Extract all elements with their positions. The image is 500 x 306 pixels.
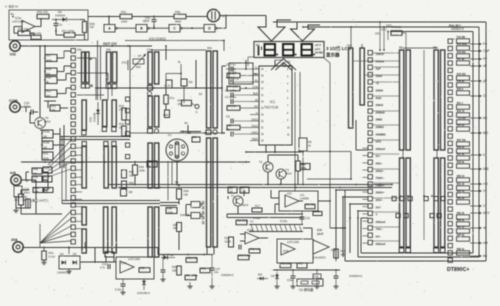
svg-text:10k: 10k xyxy=(34,190,39,194)
contact column x126 xyxy=(126,97,130,101)
svg-text:200mA: 200mA xyxy=(376,220,387,224)
wafer bar 30a-3 xyxy=(148,207,152,257)
IC5 box xyxy=(279,191,318,211)
capacitor C14 xyxy=(55,20,57,24)
wire loop conn2 xyxy=(343,196,368,198)
diode D6m xyxy=(163,255,167,259)
wire IC5 leads xyxy=(271,197,279,199)
svg-text:K1: K1 xyxy=(168,133,172,137)
ground g2 xyxy=(292,284,294,286)
ground g8 xyxy=(211,284,213,286)
resistor R17 xyxy=(45,55,57,62)
svg-text:V·: V· xyxy=(178,60,181,64)
ground g4 xyxy=(335,284,337,286)
wire gate C-D xyxy=(181,27,204,29)
svg-text:G: G xyxy=(196,110,198,114)
diode D11 xyxy=(313,274,321,279)
resistor R5a xyxy=(166,80,172,88)
svg-text:200V=: 200V= xyxy=(376,191,385,195)
contact squares right-mid xyxy=(392,197,396,201)
svg-text:20A: 20A xyxy=(11,238,18,242)
resistor R11 xyxy=(50,105,60,111)
svg-text:T1: T1 xyxy=(250,220,254,224)
contact 30a low xyxy=(148,129,153,134)
svg-text:LM358: LM358 xyxy=(300,196,309,200)
wire x130 drop xyxy=(129,46,131,137)
svg-text:R24: R24 xyxy=(44,166,49,170)
svg-text:20nF: 20nF xyxy=(376,74,383,78)
svg-text:1N4004: 1N4004 xyxy=(55,13,65,17)
wire 20A rail xyxy=(22,247,116,249)
svg-text:1N4004×2: 1N4004×2 xyxy=(221,273,234,277)
wire fan diag5 xyxy=(48,169,71,177)
capacitor C13 xyxy=(238,245,240,250)
wire R20 out xyxy=(57,93,66,95)
svg-text:R6: R6 xyxy=(229,186,233,190)
wafer bar 2f xyxy=(112,207,116,253)
svg-text:C10a: C10a xyxy=(287,278,294,282)
svg-text:R30: R30 xyxy=(175,10,181,14)
op-amp IC3a xyxy=(245,232,259,244)
svg-text:20kΩ: 20kΩ xyxy=(376,103,384,107)
svg-text:200mA: 200mA xyxy=(376,242,387,246)
box K cluster xyxy=(229,63,253,84)
svg-text:mA: mA xyxy=(10,171,16,175)
resistor R20 xyxy=(45,90,57,97)
wafer bar 30b-2 xyxy=(207,138,211,247)
gate IC6A xyxy=(104,25,115,33)
arrow LCD feed 2 xyxy=(291,22,321,41)
resistor R8 xyxy=(305,204,315,209)
resistor R52m xyxy=(122,181,127,188)
svg-text:250V: 250V xyxy=(24,190,31,194)
wire loop3 xyxy=(390,31,473,33)
fuse BX xyxy=(14,186,22,197)
resistor R1 xyxy=(227,73,240,78)
svg-text:R11 4.1k: R11 4.1k xyxy=(250,247,261,251)
resistor R14b xyxy=(238,255,249,260)
svg-text:R19: R19 xyxy=(46,76,52,80)
LCD display xyxy=(254,42,324,58)
wire LCD drop a xyxy=(294,72,296,191)
resistor R51m xyxy=(122,170,127,178)
resistor R26 xyxy=(122,126,127,136)
svg-text:53b: 53b xyxy=(347,44,352,48)
wire left join xyxy=(157,250,159,255)
svg-text:R36 100k: R36 100k xyxy=(62,29,75,33)
svg-text:μF: μF xyxy=(483,79,487,83)
wire R18 out xyxy=(57,71,64,73)
wire loop2 xyxy=(303,26,479,28)
wire range to wafer xyxy=(373,52,400,54)
svg-text:F: F xyxy=(483,42,485,46)
wire VΩ drop xyxy=(39,46,41,117)
svg-text:R1 1k: R1 1k xyxy=(228,72,236,76)
wire fan diag2 xyxy=(48,147,71,168)
svg-text:2W: 2W xyxy=(90,25,95,29)
wire mid rail y162 xyxy=(21,161,250,163)
svg-text:C1 0.22u: C1 0.22u xyxy=(225,95,237,99)
svg-text:750V=: 750V= xyxy=(376,183,385,187)
svg-text:OUT: OUT xyxy=(317,232,324,236)
resistor R11c xyxy=(236,220,247,225)
svg-text:IN+: IN+ xyxy=(254,73,258,76)
svg-text:PR2: PR2 xyxy=(298,262,303,265)
resistor R2 xyxy=(227,125,240,130)
right arrows xyxy=(470,43,480,45)
svg-text:1N4148×2: 1N4148×2 xyxy=(137,291,150,295)
op-amp IC3b xyxy=(313,240,329,254)
wafer bar 5B-2a xyxy=(400,158,404,247)
wire fan 1 xyxy=(53,133,60,135)
ground g9 xyxy=(189,284,191,286)
svg-text:V+: V+ xyxy=(11,12,15,16)
resistor R32 xyxy=(18,31,30,36)
wafer bar 2a xyxy=(103,100,107,127)
wire loop1 xyxy=(273,21,486,23)
wire mid verticals xyxy=(176,161,178,185)
svg-text:R17: R17 xyxy=(255,204,261,208)
switch contact column mid xyxy=(368,51,372,55)
wafer bar 2c xyxy=(104,142,108,146)
resistor R3 xyxy=(227,106,240,111)
wire rotary down xyxy=(167,161,169,201)
svg-text:R65 2k: R65 2k xyxy=(457,213,465,215)
capacitor C1 xyxy=(230,99,232,104)
svg-text:R48: R48 xyxy=(167,207,172,211)
op-amp IC4a xyxy=(120,261,134,273)
svg-text:R43: R43 xyxy=(34,186,39,190)
resistor R4c xyxy=(192,137,200,142)
svg-text:T: T xyxy=(376,213,378,217)
svg-text:R9 1k: R9 1k xyxy=(313,209,321,213)
resistor R5a xyxy=(200,268,210,273)
svg-text:13k: 13k xyxy=(184,192,189,196)
resistor R33 xyxy=(37,14,49,19)
wire T4 base xyxy=(30,122,35,124)
svg-text:R11: R11 xyxy=(51,104,56,108)
svg-text:R58: R58 xyxy=(140,266,145,270)
resistor R7b xyxy=(240,187,249,193)
wire feedback xyxy=(14,26,22,28)
svg-text:9014: 9014 xyxy=(242,203,249,207)
resistor R14 xyxy=(33,188,43,193)
svg-text:R11 16.2k: R11 16.2k xyxy=(237,220,249,223)
wafer bar 2e xyxy=(104,207,108,253)
svg-text:R67 10: R67 10 xyxy=(457,227,465,229)
svg-text:R14 1.10k: R14 1.10k xyxy=(239,254,251,258)
svg-text:OSC3: OSC3 xyxy=(251,118,258,121)
wire col2 left stubs xyxy=(363,147,369,149)
svg-text:R46: R46 xyxy=(184,189,190,193)
svg-text:9014: 9014 xyxy=(286,171,293,175)
wire bars to rail xyxy=(206,247,208,255)
svg-text:Ce 蜂鸣器: Ce 蜂鸣器 xyxy=(299,287,314,292)
capacitor C5 xyxy=(230,119,232,124)
wire OF drops xyxy=(379,22,381,50)
wire R10 bus xyxy=(41,130,43,156)
wire y46 mid xyxy=(71,45,152,47)
svg-text:20V=: 20V= xyxy=(376,198,383,202)
wire y40 link xyxy=(125,40,224,42)
wafer bar 5B-1b xyxy=(406,50,410,150)
resistor R26b xyxy=(43,176,52,182)
svg-text:V-: V- xyxy=(256,112,258,115)
svg-text:R33 470: R33 470 xyxy=(37,10,48,14)
resistor R103k xyxy=(300,164,310,170)
svg-text:IC1: IC1 xyxy=(270,100,275,104)
buzzer Ce xyxy=(297,279,323,286)
svg-text:390: 390 xyxy=(173,226,178,230)
svg-text:R54 1k: R54 1k xyxy=(457,124,465,127)
svg-text:C5: C5 xyxy=(226,115,230,119)
svg-text:1N4148: 1N4148 xyxy=(180,213,190,217)
svg-text:AZ: AZ xyxy=(255,99,259,102)
svg-text:C3 0.1u: C3 0.1u xyxy=(226,76,236,80)
wire loop conn4 xyxy=(358,210,368,212)
svg-text:D8: D8 xyxy=(170,253,174,257)
wire botmid rail xyxy=(273,269,340,271)
junction dots xyxy=(472,43,474,45)
diode D13 xyxy=(97,102,99,125)
capacitor C11 xyxy=(300,216,305,218)
svg-text:R15 135: R15 135 xyxy=(281,262,291,265)
wafer bar 1b xyxy=(82,142,86,146)
svg-text:R40 1K: R40 1K xyxy=(392,25,401,29)
diode box D4 D5 xyxy=(59,256,80,269)
svg-text:R7a: R7a xyxy=(170,97,175,100)
gate IC6D xyxy=(204,25,215,33)
svg-text:1u: 1u xyxy=(59,23,63,27)
svg-text:TSC7106: TSC7106 xyxy=(264,106,278,110)
svg-text:2kΩ: 2kΩ xyxy=(376,96,382,100)
wire loop conn3 xyxy=(350,203,368,205)
svg-text:R51 1: R51 1 xyxy=(457,103,464,105)
svg-text:R56: R56 xyxy=(301,163,306,166)
svg-text:R49 90: R49 90 xyxy=(457,80,465,83)
resistor R34 xyxy=(31,35,41,39)
arrow LCD feed 3 xyxy=(271,59,296,71)
resistor R36 xyxy=(64,33,75,38)
transformer T1 xyxy=(227,213,303,215)
svg-text:R17: R17 xyxy=(46,54,52,58)
svg-text:R62 30: R62 30 xyxy=(457,191,465,193)
svg-text:R3 1M: R3 1M xyxy=(228,104,236,108)
svg-text:D10: D10 xyxy=(258,275,263,277)
capacitor C19 xyxy=(161,269,166,271)
svg-text:10a: 10a xyxy=(77,48,82,52)
wire buzzer to gate D xyxy=(220,15,226,17)
svg-text:R7: R7 xyxy=(241,186,245,190)
svg-text:R53 100: R53 100 xyxy=(457,118,467,120)
svg-text:D5: D5 xyxy=(73,252,77,256)
svg-text:hFE: hFE xyxy=(483,167,489,171)
svg-text:R58 3k: R58 3k xyxy=(457,162,465,164)
svg-text:680P: 680P xyxy=(143,19,150,23)
svg-text:R5a: R5a xyxy=(201,267,206,271)
wire divider bus xyxy=(44,46,46,94)
svg-text:0.10u: 0.10u xyxy=(115,288,122,292)
svg-text:COM: COM xyxy=(9,99,17,103)
svg-text:R4b: R4b xyxy=(33,175,38,179)
resistor R40 xyxy=(391,31,402,36)
svg-text:INT: INT xyxy=(254,105,258,108)
svg-text:200V~: 200V~ xyxy=(376,169,385,173)
resistor R43 xyxy=(26,199,31,208)
gate IC6F xyxy=(191,213,200,219)
wire fan lower xyxy=(40,211,71,243)
svg-text:D6: D6 xyxy=(271,274,275,278)
svg-text:IN-: IN- xyxy=(255,79,258,82)
wire R36 leads xyxy=(56,34,64,36)
ground g6 xyxy=(122,290,124,292)
resistor R6 xyxy=(296,161,301,171)
svg-text:10k: 10k xyxy=(51,108,56,112)
svg-text:R69 1k: R69 1k xyxy=(457,249,465,251)
svg-text:2MΩ: 2MΩ xyxy=(376,118,383,122)
ptc R15 xyxy=(19,194,24,205)
svg-text:R10a: R10a xyxy=(43,130,50,134)
svg-text:R13: R13 xyxy=(225,236,230,240)
resistor R58 xyxy=(139,268,150,273)
svg-text:R10: R10 xyxy=(43,152,49,156)
svg-text:R41: R41 xyxy=(49,251,55,255)
svg-text:D6: D6 xyxy=(162,253,166,257)
IC2b box xyxy=(277,239,313,263)
svg-text:392: 392 xyxy=(129,191,134,194)
wire bars link xyxy=(402,150,404,158)
wire gate B-C xyxy=(148,27,169,29)
resistor R19 xyxy=(45,77,57,84)
wafer bar 53b-b xyxy=(360,48,364,105)
right ladder resistors xyxy=(457,39,470,43)
svg-text:100kΩ×9: 100kΩ×9 xyxy=(451,27,464,31)
wire lower rail xyxy=(62,200,160,202)
capacitor C2 xyxy=(230,93,232,98)
op-amp IC2b xyxy=(281,243,295,255)
svg-text:R61 20: R61 20 xyxy=(457,184,465,186)
svg-text:200Ω: 200Ω xyxy=(376,89,384,93)
wire LCD drop c xyxy=(302,151,304,185)
svg-text:R32 1M: R32 1M xyxy=(18,27,29,31)
wire fan diag1 xyxy=(48,140,71,165)
op-amp IC2a xyxy=(22,21,35,33)
wire fan 2 xyxy=(53,144,64,146)
wire fan diag4 xyxy=(48,162,71,174)
svg-text:IC4a: IC4a xyxy=(121,261,127,265)
resistor R6b xyxy=(228,187,237,193)
ground g5 xyxy=(68,269,70,271)
svg-text:20MΩ: 20MΩ xyxy=(376,125,385,129)
transistor T4 xyxy=(35,118,46,129)
wire T2T3 xyxy=(267,172,269,185)
svg-text:5B: 5B xyxy=(399,46,403,50)
resistor R41 xyxy=(42,251,47,260)
power section frame xyxy=(9,10,88,40)
resistor R59 xyxy=(177,266,182,275)
wire loop4 vert xyxy=(335,190,337,261)
svg-text:100k: 100k xyxy=(139,168,145,172)
svg-text:10k: 10k xyxy=(172,268,177,272)
IC4 box xyxy=(116,257,154,279)
wire x112 drop xyxy=(111,88,113,96)
svg-text:200mV: 200mV xyxy=(376,147,387,151)
svg-text:R59: R59 xyxy=(172,265,177,269)
svg-text:10b: 10b xyxy=(106,48,111,52)
svg-text:PF: PF xyxy=(483,57,487,61)
wafer bar 30a-1b xyxy=(148,96,152,127)
resistor R10a xyxy=(42,130,53,138)
resistor R15b xyxy=(280,263,291,268)
wire right bus1 xyxy=(453,38,455,40)
capacitor C10 xyxy=(153,17,155,20)
transistor T2 xyxy=(263,162,273,172)
capacitor C12b xyxy=(334,275,339,277)
svg-text:R63 1k: R63 1k xyxy=(457,198,465,200)
wire R19 out xyxy=(57,79,66,81)
capacitor C10a xyxy=(291,275,296,277)
svg-text:11.1k: 11.1k xyxy=(164,84,171,88)
wire T1 leads xyxy=(226,214,228,218)
svg-text:μA A: μA A xyxy=(315,48,321,51)
resistor R35 xyxy=(82,22,86,33)
svg-text:C11: C11 xyxy=(305,216,310,220)
wafer bar 1c xyxy=(82,207,86,225)
wire 20A cont xyxy=(84,242,86,248)
resistor R13a xyxy=(32,168,42,174)
wire mA right xyxy=(21,179,36,181)
resistor R47m xyxy=(177,223,182,232)
jack 20A xyxy=(13,242,23,252)
wafer bar 30a-2 xyxy=(148,143,152,188)
svg-text:20V~: 20V~ xyxy=(376,162,383,166)
diode D7 xyxy=(143,279,145,290)
svg-text:20A~: 20A~ xyxy=(376,227,384,231)
ground g1 xyxy=(276,284,278,286)
resistor R30 xyxy=(174,14,186,19)
wire fan diag3 xyxy=(48,155,71,171)
svg-text:90k: 90k xyxy=(46,72,51,76)
svg-text:R57 1.47k: R57 1.47k xyxy=(186,274,198,278)
wire mA mid xyxy=(36,213,62,215)
capacitor C15 xyxy=(107,264,109,269)
svg-text:C2 0.47u: C2 0.47u xyxy=(225,89,237,93)
svg-text:27k: 27k xyxy=(119,107,124,111)
wire x196 seg xyxy=(195,60,197,88)
wire 30b feed xyxy=(152,49,206,51)
IC U1 pins xyxy=(250,68,259,70)
svg-text:R47 9k: R47 9k xyxy=(457,58,465,61)
potentiometer RT xyxy=(133,59,144,64)
svg-text:R8 10k: R8 10k xyxy=(306,203,315,207)
svg-text:100nF: 100nF xyxy=(376,52,385,56)
resistor R57 xyxy=(185,275,196,280)
svg-text:R57 2k: R57 2k xyxy=(457,154,465,156)
svg-text:10u: 10u xyxy=(214,270,219,274)
wire mid connectors xyxy=(356,149,368,151)
svg-text:R56 4.3k: R56 4.3k xyxy=(187,256,198,260)
rotary switch K1 xyxy=(166,139,188,161)
svg-text:R26: R26 xyxy=(119,122,124,126)
svg-text:R44 9M: R44 9M xyxy=(457,36,465,39)
svg-text:OUT C/V: OUT C/V xyxy=(103,42,117,46)
wafer bar 5Bx-2a xyxy=(434,158,438,247)
resistor R25 xyxy=(122,108,127,120)
svg-text:C4 0.1u: C4 0.1u xyxy=(226,63,236,67)
transistor T3 xyxy=(276,169,286,179)
resistor R7a xyxy=(164,95,169,104)
svg-text:T3: T3 xyxy=(286,168,290,172)
